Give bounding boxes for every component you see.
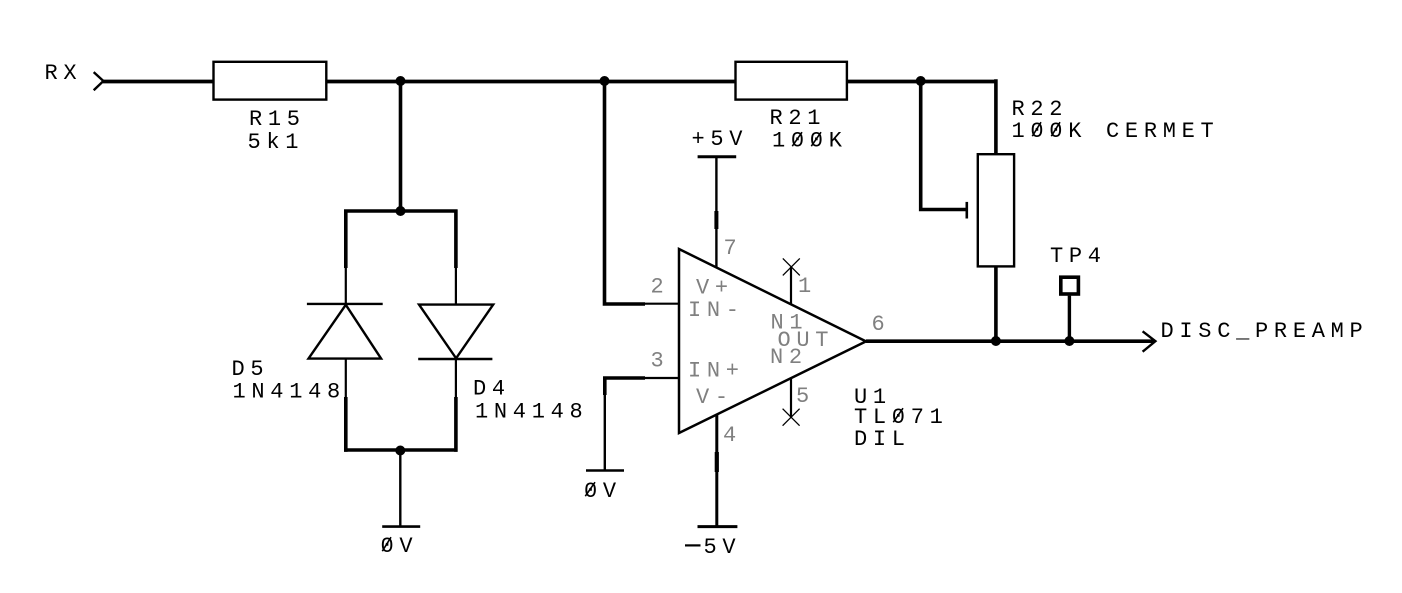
node junction dot diode bottom [395,446,405,456]
svg-text:0V: 0V [584,479,622,504]
label D4 [473,377,588,425]
node junction dot R22/output [991,336,1001,346]
svg-text:IN+: IN+ [688,359,745,384]
resistor R15 [214,62,327,100]
slashed zero marks on value labels [382,122,1060,551]
potentiometer R22 body [978,154,1014,266]
pin 5 no-connect stub and X [783,378,800,425]
svg-text:TP4: TP4 [1050,244,1107,269]
wire diode pair bottom rail [344,448,458,452]
svg-text:R21: R21 [770,106,827,131]
op-amp pin labels inside [688,276,834,411]
label R15 value [248,107,306,155]
test point TP4 square [1061,277,1079,294]
wire +5V to pin 7 [715,158,717,267]
svg-text:5k1: 5k1 [248,130,305,155]
node junction dot B (x=604) [600,76,610,86]
node junction dot A (x=400) [396,76,406,86]
pin 1 no-connect stub and X [783,258,800,304]
svg-text:1N4148: 1N4148 [475,400,588,425]
wire R15 to R21 [327,80,736,84]
node DISC_PREAMP output arrow [1143,331,1156,351]
label U1 TL071 DIL [854,385,949,452]
svg-text:RX: RX [45,61,83,86]
svg-text:5V: 5V [704,535,742,560]
label R22 value [1012,97,1220,144]
resistor R21 [736,62,847,100]
wire RX to R15 [103,80,214,84]
wire D4 bottom to bottom rail [455,359,457,397]
svg-text:DISC_PREAMP: DISC_PREAMP [1161,319,1369,344]
label R21 value [770,106,848,154]
svg-text:V+: V+ [696,276,734,301]
wire IN+ (pin 3) to ground [605,378,645,395]
power +5V rail bar [698,155,737,158]
wire D5 bottom to bottom rail [345,359,347,397]
wire R21 to R22 top corner [847,80,996,84]
pin 2 stub [643,303,679,305]
wire diode bottom to ground [399,452,401,526]
svg-text:5: 5 [796,384,815,409]
svg-text:+5V: +5V [692,127,749,152]
svg-text:D5: D5 [232,357,270,382]
svg-text:2: 2 [651,275,670,300]
svg-text:100K: 100K [772,129,848,154]
svg-text:4: 4 [723,423,742,448]
wire junction B down to op-amp IN- (pin 2) [605,81,646,304]
svg-text:1: 1 [798,274,817,299]
svg-text:N2: N2 [770,345,808,370]
svg-text:R15: R15 [249,107,306,132]
svg-text:DIL: DIL [854,427,911,452]
wire R22 bottom to output rail [994,267,998,342]
svg-text:V-: V- [696,385,734,410]
svg-text:6: 6 [872,312,891,337]
svg-text:7: 7 [724,236,743,261]
wiper contact bar [965,202,968,219]
wire corner down to R22 [994,79,998,155]
wire op-amp output rail [866,339,1154,343]
wire TP4 to output rail [1068,296,1071,341]
diode D4 (triangle pointing down, anode bar bottom) [418,305,493,359]
node junction dot TP4/output [1064,336,1074,346]
label D5 [232,357,346,405]
svg-text:D4: D4 [473,377,511,402]
wire wiper from junction C [921,81,966,210]
power -5V rail bar [698,525,738,528]
diode D5 (cathode bar top, triangle pointing up) [307,304,383,359]
ground 0V (under diodes) [382,525,420,528]
svg-text:0V: 0V [381,534,419,559]
svg-text:100K CERMET: 100K CERMET [1012,119,1220,144]
node junction dot C (x=920) [916,76,926,86]
ground 0V (pin 3) [586,469,624,472]
wire diode pair top rail [344,209,458,213]
wire left branch down to D5 [344,210,348,269]
node junction dot diode top [396,206,406,216]
svg-text:3: 3 [651,349,670,374]
svg-text:IN-: IN- [688,298,745,323]
op-amp U1 triangle [679,249,866,433]
pin 3 stub [643,377,679,379]
wire pin 4 to -5V [715,415,718,526]
svg-text:1N4148: 1N4148 [233,380,346,405]
wire right branch down to D4 [454,210,458,269]
wire junction A down to diode pair [399,81,403,211]
node RX input arrow [94,72,104,90]
